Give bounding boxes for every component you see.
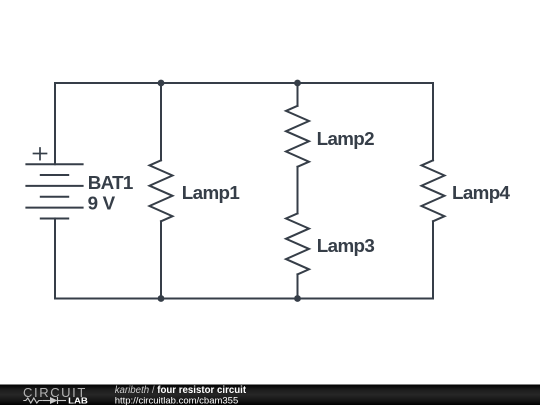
wire bottom rail — [55, 298, 433, 300]
junction node bottom Lamp1 — [158, 295, 165, 302]
svg-text:Lamp2: Lamp2 — [317, 128, 375, 149]
wire top rail — [55, 82, 433, 84]
wire Lamp4 top lead — [432, 83, 434, 160]
svg-text:9 V: 9 V — [88, 193, 116, 214]
resistor Lamp3 — [286, 213, 309, 274]
battery + polarity mark — [34, 148, 47, 160]
svg-text:LAB: LAB — [68, 396, 88, 405]
wire battery bottom lead — [54, 218, 56, 298]
battery BAT1 — [26, 164, 82, 218]
svg-text:Lamp3: Lamp3 — [317, 235, 375, 256]
svg-text:karibeth / four resistor circu: karibeth / four resistor circuit — [115, 385, 247, 396]
junction node top Lamp2 — [294, 80, 301, 87]
resistor Lamp4 — [422, 160, 445, 221]
resistor Lamp2 — [286, 106, 309, 167]
wire Lamp3 bottom lead — [297, 274, 299, 298]
svg-text:Lamp1: Lamp1 — [182, 182, 240, 203]
wire Lamp1 bottom lead — [160, 221, 162, 298]
footer logo resistor-diode glyph — [23, 397, 66, 404]
wire Lamp1 top lead — [160, 83, 162, 160]
svg-text:http://circuitlab.com/cbam355: http://circuitlab.com/cbam355 — [115, 395, 239, 405]
svg-text:Lamp4: Lamp4 — [452, 182, 511, 203]
wire Lamp2-Lamp3 middle — [297, 167, 299, 214]
junction node bottom Lamp3 — [294, 295, 301, 302]
junction node top Lamp1 — [158, 80, 165, 87]
wire battery top lead — [54, 83, 56, 164]
wire Lamp4 bottom lead — [432, 221, 434, 298]
svg-text:BAT1: BAT1 — [88, 172, 134, 193]
resistor Lamp1 — [150, 160, 173, 221]
wire Lamp2 top lead — [297, 83, 299, 106]
